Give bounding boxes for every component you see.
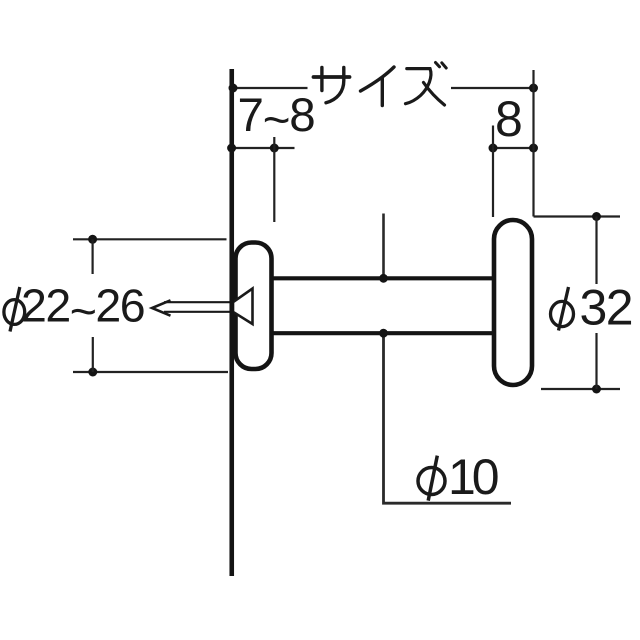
- node dot 8 right: [529, 144, 538, 153]
- base plate (wall-side rounded flange): [236, 243, 272, 370]
- dimension phi22-26 bottom line: [73, 371, 228, 373]
- node dot phi32 bottom: [592, 385, 601, 394]
- node dot size-line right: [529, 84, 538, 93]
- svg-text:10: 10: [448, 449, 498, 505]
- phi32 vertical connector upper: [595, 217, 597, 285]
- screw head (countersunk frustum): [233, 289, 253, 325]
- svg-text:32: 32: [580, 280, 633, 336]
- dimension phi32 bottom line: [541, 388, 620, 390]
- wall line: [229, 69, 234, 576]
- phi32 vertical connector lower: [595, 333, 597, 389]
- katakana SA of size label: [314, 68, 350, 103]
- node dot phi22-26 bottom: [88, 368, 97, 377]
- extension line knob left: [492, 126, 494, 218]
- centerline upper segment: [382, 214, 385, 277]
- svg-text:7~8: 7~8: [238, 89, 315, 147]
- extension line knob right: [532, 70, 534, 217]
- dimension phi32 top line: [534, 215, 621, 217]
- svg-text:8: 8: [495, 91, 523, 147]
- screw shaft top line: [164, 301, 231, 303]
- screw shaft bottom line: [164, 311, 231, 313]
- node dot 8 left: [489, 144, 498, 153]
- centerline lower segment / phi10 leader: [384, 335, 512, 503]
- node dot 7~8 right: [270, 144, 279, 153]
- node dot phi22-26 top: [88, 235, 97, 244]
- phi symbol of 32: [551, 287, 574, 331]
- katakana ZU of size label: [406, 63, 447, 106]
- phi symbol of 10: [418, 456, 445, 501]
- svg-text:22~26: 22~26: [21, 280, 144, 338]
- screw tip open arrowhead: [152, 300, 171, 315]
- node dot stem bottom: [379, 329, 388, 338]
- stem top edge: [272, 276, 495, 280]
- size dimension line (top, interrupted by text): [232, 87, 308, 89]
- stem bottom edge: [272, 331, 495, 335]
- phi22-26 vertical connector upper: [91, 239, 93, 274]
- knob (outer rounded end cap): [494, 220, 532, 385]
- dimension phi22-26 top line: [73, 238, 227, 240]
- dimension line 7~8: [231, 147, 295, 149]
- dimension line 8: [491, 147, 537, 149]
- phi symbol of 22~26: [4, 287, 25, 332]
- node dot phi32 top: [592, 212, 601, 221]
- phi22-26 vertical connector lower: [92, 337, 94, 372]
- node dot size-line left: [229, 84, 238, 93]
- katakana I of size label: [361, 67, 395, 106]
- extension line base-plate right: [273, 137, 275, 222]
- node dot stem top: [379, 274, 388, 283]
- node dot 7~8 left: [227, 144, 236, 153]
